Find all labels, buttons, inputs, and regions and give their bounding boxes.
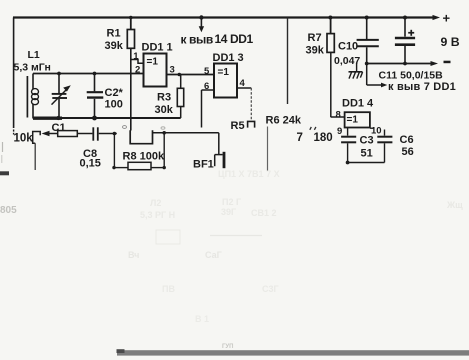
svg-text:ЦП1 X 7В1 7 X: ЦП1 X 7В1 7 X [218, 169, 280, 179]
node dot C2 top [93, 72, 97, 76]
node dot varcap top [57, 72, 61, 76]
svg-text:ПВ: ПВ [162, 284, 175, 294]
ditto marks [310, 127, 316, 130]
wire pin4 drop faint [250, 88, 252, 121]
C11 plus sign [408, 30, 414, 36]
svg-text:C3: C3 [360, 135, 374, 147]
svg-text:39k: 39k [306, 45, 325, 57]
node dot BF1 net [162, 131, 166, 135]
node dot R8 right [163, 166, 166, 169]
wire to pin 14 arrow [200, 18, 202, 28]
svg-text:BF1: BF1 [193, 158, 214, 170]
svg-text:R8 100k: R8 100k [123, 151, 165, 163]
wire minus rail [367, 63, 432, 65]
wire key dip [130, 130, 152, 143]
wire R8 right lead [151, 167, 164, 169]
op gate DD1.1 [144, 54, 167, 87]
resistor R5 stub [248, 121, 255, 127]
wire left border dashes [13, 130, 15, 132]
wire pin6 stub [202, 89, 215, 91]
variable capacitor arrow head [63, 85, 71, 91]
resistor R1 [127, 18, 143, 131]
node dot C11 top [403, 16, 407, 20]
svg-text:5,3 РГ Н: 5,3 РГ Н [140, 210, 175, 220]
node dot varcap bottom [56, 116, 60, 120]
bottom gray bar [117, 350, 469, 355]
node dot R7 top [328, 16, 332, 20]
resistor R8 [128, 162, 151, 169]
svg-text:C6: C6 [400, 134, 414, 146]
wire pin 8 stub [331, 116, 345, 118]
faint left edge marks [2, 142, 4, 152]
node dot minus C10 [365, 62, 369, 66]
svg-text:56: 56 [402, 146, 414, 158]
wire R6 bottom lead faint [267, 127, 269, 172]
ground chassis [349, 64, 363, 79]
node dot C2 bottom [92, 116, 97, 121]
node dot pin14 branch [199, 15, 203, 19]
wire C8 to node [99, 133, 117, 135]
svg-text:C11 50,0/15В: C11 50,0/15В [379, 69, 444, 81]
node dot R8 left [112, 166, 115, 169]
wire C3 C6 common [347, 162, 385, 164]
wire R8 left lead [114, 167, 128, 169]
potentiometer 10k body [33, 132, 41, 144]
svg-text:В 1: В 1 [195, 314, 209, 324]
resistor R7 [327, 18, 334, 118]
headphone BF1 [215, 152, 224, 168]
svg-text:Жщ: Жщ [446, 200, 463, 210]
svg-text:Л2: Л2 [150, 198, 161, 208]
wire BF1 drop [218, 133, 220, 155]
wire pin9 lead [347, 128, 349, 136]
capacitor C8 [93, 127, 98, 140]
svg-text:0,15: 0,15 [80, 158, 101, 170]
supply plus arrow [433, 15, 441, 20]
wire tank bottom rail [33, 117, 181, 119]
node dot R1 top [129, 16, 133, 20]
wire pin10 stub [370, 127, 374, 129]
capacitor C10 [357, 18, 379, 64]
wire R8 rise [163, 133, 165, 168]
wire pin4 output [237, 87, 251, 89]
resistor R3 [177, 75, 183, 119]
speck near node2 [161, 127, 165, 129]
wire arrow to C1 box [48, 133, 58, 135]
capacitor C3 [341, 137, 356, 163]
ghost texts bleedthrough [0, 169, 463, 324]
svg-text:+: + [443, 11, 451, 26]
node dot common [346, 161, 350, 165]
variable capacitor tuning [52, 74, 68, 119]
svg-text:9: 9 [337, 126, 342, 137]
label minus [444, 61, 451, 64]
capacitor C6 [377, 137, 392, 163]
capacitor C11 electrolytic [395, 18, 415, 64]
svg-text:DD1 4: DD1 4 [342, 98, 374, 110]
wire DD1.1 output to DD1.3 [167, 74, 215, 76]
node dot minus C11 [403, 62, 407, 66]
svg-text:180: 180 [314, 132, 333, 144]
ghost dash [210, 235, 262, 237]
wire top supply rail [13, 16, 434, 18]
wire C1 to C8 [77, 133, 92, 135]
ghost box [156, 230, 180, 244]
svg-text:805: 805 [0, 205, 17, 216]
wire R6 top lead [287, 18, 289, 105]
svg-text:7: 7 [297, 132, 303, 144]
svg-text:C10: C10 [338, 41, 358, 53]
svg-text:СаГ: СаГ [205, 250, 222, 260]
wire tank top rail / DD1.1 pin2 net [33, 73, 144, 75]
wire left border vertical [13, 18, 15, 129]
minus rail arrow [431, 61, 439, 66]
op gate DD1.3 [214, 64, 237, 98]
op gate DD1.4 [345, 112, 370, 127]
svg-text:10k: 10k [14, 133, 34, 145]
node dot left of R8 [113, 132, 117, 136]
svg-text:C1: C1 [52, 122, 66, 134]
wire pin6 vertical [201, 90, 203, 128]
speck left edge [0, 171, 9, 175]
svg-text:9 В: 9 В [441, 35, 460, 49]
bottom bar dark nub [117, 349, 125, 353]
svg-text:С3Г: С3Г [262, 284, 279, 294]
wire to BF1 [153, 132, 219, 134]
wire drop to R8 [113, 134, 115, 168]
speck near node [123, 126, 127, 129]
svg-text:СВ1 2: СВ1 2 [251, 208, 277, 218]
trimmer C1 body [58, 131, 78, 137]
wiper arrow head [42, 131, 50, 136]
svg-text:ГУП: ГУП [222, 344, 233, 350]
svg-text:Вч: Вч [128, 250, 139, 260]
inductor L1 [27, 74, 38, 119]
capacitor C2 [87, 74, 104, 119]
svg-text:R7: R7 [308, 32, 322, 44]
svg-text:к выв 7 DD1: к выв 7 DD1 [388, 81, 456, 93]
svg-text:51: 51 [361, 148, 373, 160]
svg-text:8: 8 [336, 110, 341, 121]
pin7 arrow head [381, 83, 387, 88]
node dot C10 top [365, 16, 369, 20]
svg-text:П2 Г: П2 Г [222, 197, 241, 207]
node dot R3 top [178, 73, 182, 77]
svg-text:39Г: 39Г [221, 207, 236, 217]
wire pot lower lead [34, 143, 36, 170]
svg-text:=1: =1 [347, 114, 359, 125]
wire to pin 7 [366, 64, 368, 86]
wire pin10 lead [384, 130, 386, 136]
